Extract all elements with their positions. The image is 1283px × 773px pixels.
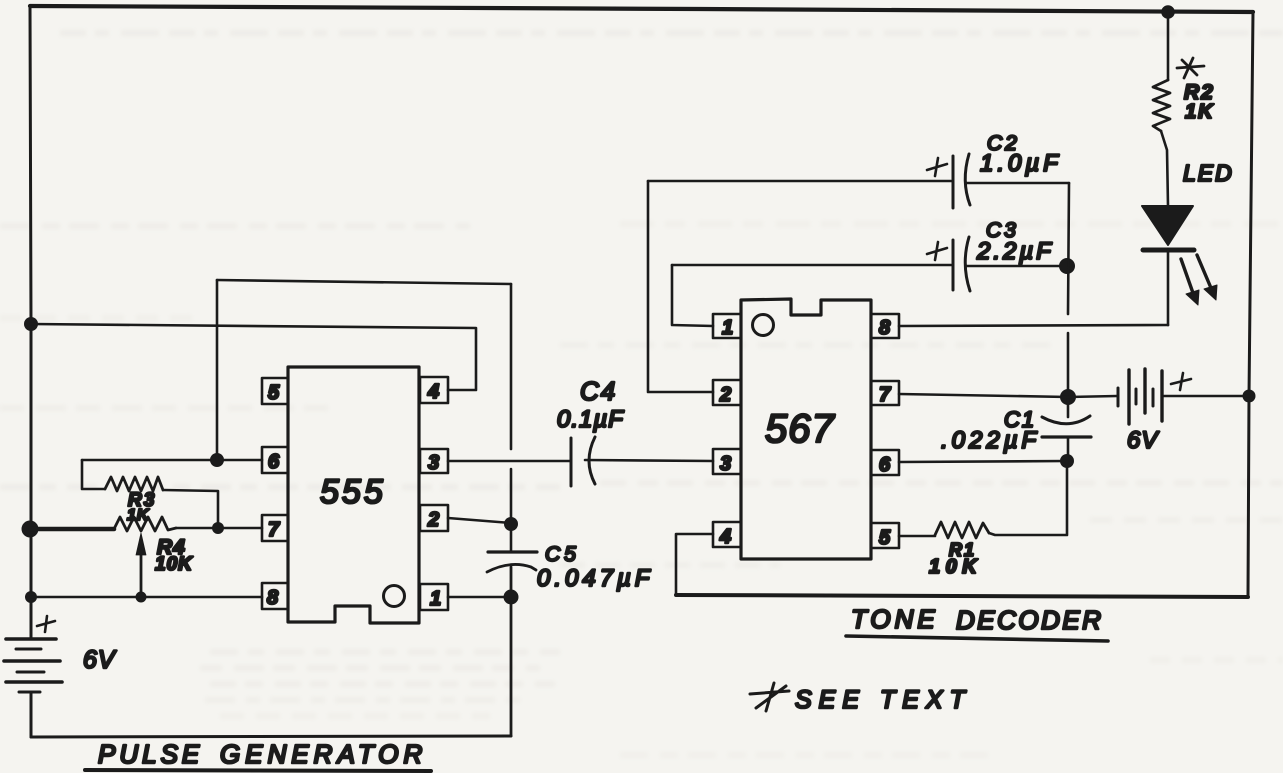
wire R3 to pin7 node (163, 490, 218, 528)
svg-text:3: 3 (720, 453, 731, 475)
potentiometer R4 (114, 517, 176, 531)
capacitor C3 straight plate (952, 240, 955, 290)
wire R1 to vertical riser (989, 461, 1067, 535)
wire pin4 of U2 loop down (676, 534, 713, 595)
svg-text:C5: C5 (545, 543, 580, 566)
pin box 1 of U1 (420, 584, 448, 610)
svg-text:8: 8 (879, 317, 891, 339)
wire loop right vertical lower to C5 (510, 469, 513, 552)
junction node pin1 / C5 (504, 590, 519, 605)
caption underline pulse generator (85, 770, 431, 771)
svg-text:5: 5 (879, 527, 891, 549)
junction node top-right (1161, 5, 1175, 19)
label C3 plus sign (927, 242, 947, 260)
capacitor C5 bottom plate curved (487, 564, 536, 572)
note asterisk star (750, 683, 789, 711)
wire top node down to R2 (1167, 12, 1170, 80)
battery B1 plate short 3 (19, 691, 40, 694)
potentiometer R4 wiper arrow shaft (140, 551, 143, 595)
svg-text:SEE TEXT: SEE TEXT (795, 686, 972, 714)
capacitor C1 lead to pin6 node (1067, 437, 1070, 461)
wire battery B1 negative lead (30, 692, 33, 737)
label R2 asterisk (1177, 58, 1204, 78)
wire pin7 thick from rail (31, 527, 114, 532)
wire C2 line left (648, 180, 951, 183)
capacitor C2 curved plate (965, 154, 970, 205)
wire Vcc line to pin4 of U1 (31, 324, 476, 390)
pin box 6 of U1 (262, 447, 288, 473)
svg-text:0.047µF: 0.047µF (537, 565, 654, 592)
svg-text:DECODER: DECODER (956, 605, 1104, 635)
pin box 7 of U2 (871, 381, 899, 405)
capacitor C1 lead from pin7 node (1067, 397, 1070, 417)
label C2 plus sign (927, 158, 947, 176)
wire left supply rail (30, 6, 31, 639)
junction node pin8 / wiper (136, 592, 147, 603)
pin box 4 of U1 (420, 377, 448, 403)
svg-text:7: 7 (268, 519, 280, 541)
wire pin6 of U2 to node (899, 461, 1067, 462)
wire C2 right to corner (966, 182, 1069, 185)
wire pin6 of U1 (82, 459, 262, 462)
capacitor C4 right plate curved (589, 437, 595, 484)
battery B1 plate short 2 (17, 671, 44, 674)
wire loop right vertical upper (hops pin3 wire) (510, 284, 513, 449)
junction node pin6 / loop (210, 453, 224, 467)
wire pin2 of U2 loop up (648, 181, 713, 392)
battery B1 plate long 3 (6, 680, 62, 684)
battery B2 plate long 2 (1143, 369, 1146, 413)
wire pin8 of U1 (31, 596, 262, 599)
capacitor C2 straight plate (952, 156, 955, 208)
svg-text:C4: C4 (580, 376, 617, 406)
svg-text:1: 1 (722, 317, 733, 339)
pin box 4 of U2 (713, 522, 741, 547)
LED light arrow 1 shaft (1181, 259, 1193, 293)
capacitor C1 straight plate (1042, 435, 1091, 438)
LED light arrow 1 head (1186, 290, 1199, 305)
svg-text:2: 2 (427, 509, 439, 531)
pin box 5 of U1 (262, 378, 288, 404)
LED D1 cathode bar (1143, 248, 1194, 253)
wire pin5 of U2 to R1 (899, 535, 935, 538)
pin box 3 of U2 (713, 449, 741, 474)
capacitor C1 curved plate (1042, 416, 1090, 424)
battery B2 plate short 3 (1152, 389, 1155, 406)
svg-text:GENERATOR: GENERATOR (220, 739, 427, 769)
pin box 8 of U2 (871, 314, 899, 338)
pin box 3 of U1 (420, 449, 448, 473)
svg-text:7: 7 (879, 384, 891, 406)
svg-text:6: 6 (879, 454, 891, 476)
svg-text:2.2µF: 2.2µF (976, 238, 1054, 265)
wire loop pin6 to pin2 left vertical (216, 280, 219, 460)
wire pin1 of U2 loop up (672, 265, 713, 326)
junction node right border / battery line (1243, 390, 1256, 403)
battery B2 plate short 1 (1117, 388, 1120, 406)
junction node left rail / Vcc-pin4 line (24, 317, 38, 331)
svg-text:1: 1 (430, 588, 441, 610)
svg-text:2: 2 (719, 384, 731, 406)
LED light arrow 2 head (1204, 285, 1217, 300)
IC U1 pin1 marker circle (384, 586, 405, 607)
wire C2C3 vertical upper (hops pin8 wire) (1068, 183, 1069, 314)
battery B1 plate short 1 (16, 648, 41, 651)
pin box 2 of U1 (420, 505, 448, 531)
faint scan bleed-through texture (decorative) (0, 0, 1, 1)
junction node pin7 / battery (1060, 389, 1076, 405)
svg-text:1.0µF: 1.0µF (980, 150, 1062, 177)
wire bend pin6 down to R3 (82, 460, 105, 489)
svg-text:10K: 10K (155, 554, 193, 575)
wire C3 line left (672, 264, 951, 267)
svg-text:4: 4 (427, 381, 439, 403)
wire loop pin6 to pin2 top (217, 280, 511, 284)
svg-text:10K: 10K (929, 556, 982, 578)
wire pin7 of U2 to node (899, 394, 1068, 397)
LED D1 triangle (1142, 206, 1193, 245)
wire top supply rail (30, 6, 1253, 12)
pin box 6 of U2 (871, 450, 899, 475)
svg-text:LED: LED (1183, 160, 1234, 186)
wire R4 to pin7 (176, 527, 262, 530)
junction node C3 / C2 vertical (1059, 258, 1075, 274)
junction node pin2 / C5 (504, 517, 518, 531)
pin box 8 of U1 (262, 583, 288, 609)
wire battery B2 left lead (1068, 396, 1117, 397)
junction node left rail / pin8 line (25, 591, 37, 603)
resistor R1 (935, 522, 989, 538)
resistor R3 (105, 477, 163, 491)
wire C5 bottom to ground wire (510, 567, 513, 736)
wire battery B2 right lead (1164, 395, 1249, 398)
svg-text:8: 8 (267, 587, 279, 609)
LED light arrow 2 shaft (1197, 255, 1211, 288)
label battery B1 plus sign (37, 616, 55, 632)
caption underline tone decoder (846, 636, 1108, 641)
pin box 7 of U1 (262, 515, 288, 541)
junction node pin7 (212, 522, 224, 534)
pin box 1 of U2 (713, 314, 741, 338)
battery B1 plate long 2 (4, 659, 60, 663)
svg-text:6V: 6V (1127, 427, 1159, 454)
capacitor C4 left plate (570, 438, 573, 486)
battery B2 plate long 3 (1160, 371, 1163, 421)
wire pin3 of U1 to C4 (448, 460, 570, 463)
IC U1 555 body (288, 367, 419, 623)
resistor R2 (1153, 80, 1170, 131)
wire LED cathode to pin8 line (1167, 250, 1170, 325)
svg-text:555: 555 (320, 473, 386, 511)
junction node left rail / pin7 line (22, 521, 39, 538)
svg-text:567: 567 (765, 407, 835, 451)
battery B2 plate long 1 (1127, 370, 1130, 424)
svg-text:0.1µF: 0.1µF (557, 406, 624, 433)
pin box 2 of U2 (713, 380, 741, 405)
battery B2 plate short 2 (1135, 389, 1138, 404)
svg-text:.022µF: .022µF (941, 427, 1040, 454)
svg-text:6: 6 (268, 451, 280, 473)
IC U2 567 body (741, 299, 871, 559)
label battery B2 plus sign (1171, 373, 1191, 390)
IC U2 pin1 marker circle (753, 315, 774, 336)
junction node pin6 / R1 vertical (1060, 454, 1074, 468)
wire pin1 of U1 (448, 596, 511, 599)
svg-text:1K: 1K (1185, 101, 1215, 123)
svg-text:TONE: TONE (851, 604, 939, 634)
wire pin8 of U2 to LED (899, 325, 1168, 326)
wire right border (1248, 12, 1253, 596)
wire R2 to LED anode (1161, 131, 1168, 206)
potentiometer R4 wiper arrowhead (136, 533, 146, 555)
capacitor C3 curved plate (965, 237, 970, 291)
wire C3 right to node (966, 265, 1060, 268)
capacitor C5 top plate (488, 550, 537, 553)
svg-text:5: 5 (268, 382, 280, 404)
wire pin2 of U1 (448, 518, 511, 523)
svg-text:PULSE: PULSE (98, 739, 203, 769)
wire ground bottom pulse generator (31, 736, 511, 737)
svg-text:4: 4 (719, 526, 731, 548)
svg-text:6V: 6V (83, 646, 117, 674)
wire C4 to pin3 of U2 (585, 460, 713, 461)
svg-text:3: 3 (428, 452, 439, 474)
wire tone decoder bottom (676, 595, 1248, 597)
pin box 5 of U2 (871, 523, 899, 548)
wire C2C3 vertical lower to pin7 node (1067, 333, 1070, 396)
battery B1 plate long 1 (6, 637, 56, 641)
